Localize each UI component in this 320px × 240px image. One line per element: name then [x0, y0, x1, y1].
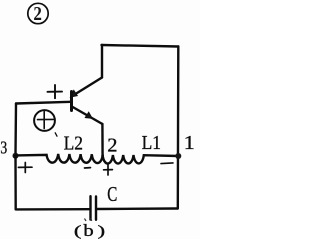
- polarity minus left of node 2: [85, 167, 91, 169]
- svg-text:3: 3: [0, 139, 7, 158]
- source symbol circled plus: [34, 110, 55, 131]
- svg-text:): ): [98, 223, 105, 239]
- svg-text:1: 1: [184, 131, 195, 154]
- wire: collector vertical segment: [101, 45, 103, 78]
- wire: right vertical: [177, 47, 180, 209]
- wire: bottom left segment: [16, 208, 90, 211]
- svg-text:L2: L2: [64, 132, 83, 155]
- circled 2 glyph: [33, 3, 42, 26]
- svg-text:C: C: [107, 183, 117, 206]
- polarity plus above base: [48, 85, 63, 98]
- inductor L2: [16, 154, 103, 163]
- wire: collector diagonal into transistor: [73, 78, 102, 96]
- wire: top horizontal: [102, 45, 179, 47]
- node 1 junction dot: [175, 153, 181, 159]
- node 3 junction dot: [13, 153, 19, 159]
- wire: left vertical of box: [14, 104, 17, 156]
- svg-text:L1: L1: [142, 132, 161, 155]
- inductor L1: [103, 155, 179, 164]
- capacitor C right plate: [95, 196, 97, 219]
- speck marks above caption: [85, 219, 87, 222]
- svg-text:2: 2: [107, 135, 117, 156]
- wire: emitter vertical to node 2: [101, 124, 104, 157]
- svg-text:b: b: [83, 222, 93, 239]
- polarity minus near node 1: [161, 162, 173, 165]
- transistor Q1 collector arrowhead: [71, 90, 78, 97]
- wire: left vertical lower: [14, 156, 17, 209]
- capacitor C left plate: [89, 196, 91, 219]
- circled number 2 marker: [28, 3, 48, 23]
- transistor Q1 base bar: [70, 92, 73, 111]
- transistor Q1 emitter diagonal: [72, 107, 103, 125]
- polarity plus below node 3: [18, 163, 32, 173]
- small speck mark: [55, 133, 57, 136]
- wire: bottom right segment: [97, 207, 177, 210]
- transistor Q1 emitter arrowhead: [85, 112, 92, 118]
- polarity plus right of node 2: [104, 164, 113, 175]
- svg-text:(: (: [74, 223, 81, 239]
- wire: base lead / top of left box: [16, 102, 71, 104]
- svg-text:2: 2: [33, 3, 42, 26]
